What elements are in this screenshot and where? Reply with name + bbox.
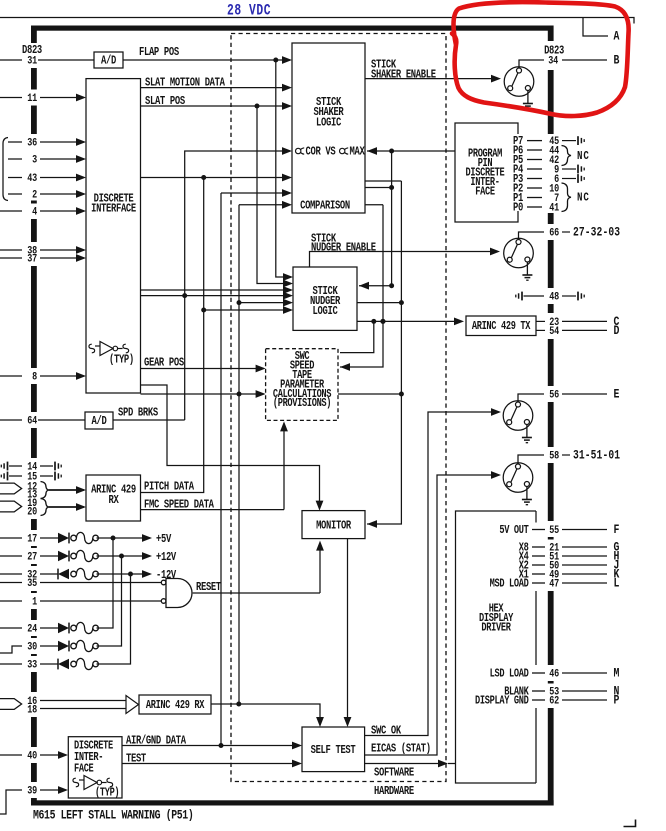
wire air/gnd data [122,745,300,747]
svg-text:P: P [613,692,619,708]
svg-text:HARDWARE: HARDWARE [374,785,414,799]
cable bracket pins 36/3/43/2 [3,138,8,201]
pin 31 [0,59,22,61]
pin 15 (not connected) [1,472,7,481]
hex display driver U14 [456,511,537,783]
ARINC 429 RX U8 [86,475,141,521]
LRU unit boundary M615 (thick border) [31,26,554,806]
junction pitch data [201,175,206,180]
junction swc feed 1 [371,319,376,324]
wire alpha COR input (spd brks) [185,151,290,420]
open bus arrowhead into ARINC 429 RX [126,696,139,714]
wire test [122,763,300,765]
pin 14 (not connected) [1,462,7,471]
svg-text:GEAR POS: GEAR POS [144,356,184,370]
pin 30 [0,646,22,653]
svg-text:SELF TEST: SELF TEST [311,744,356,758]
wire self test to display driver [365,763,446,765]
wire pin32 to CR [40,573,58,575]
svg-text:41: 41 [549,203,559,216]
wire pin35 to gate [40,582,161,584]
junction pitch to nudger [201,308,206,313]
wire -12V [97,573,151,575]
svg-text:D: D [613,323,619,339]
pin 2 [8,193,22,195]
sheet corner mark [624,820,636,827]
wire comparison input 1 [141,177,291,179]
wire monitor feed [367,181,401,524]
diode CR2 [58,551,69,561]
svg-text:3: 3 [32,155,37,168]
wire pin64 to A/D [38,419,85,421]
wire comparison out 1 [365,180,401,182]
svg-text:30: 30 [27,642,37,655]
pin 27 [0,555,22,557]
wire nudger input 3 [141,289,292,291]
wire nudger out to ARINC TX [357,320,462,322]
pin 36 [8,141,22,143]
wire gear pos [141,368,264,370]
pin 24 [0,627,22,629]
svg-text:INTERFACE: INTERFACE [91,202,136,216]
svg-text:46: 46 [549,669,559,682]
svg-text:P0: P0 [513,201,523,215]
AND gate U1 (reset logic) [161,578,192,607]
svg-text:28 VDC: 28 VDC [227,3,271,20]
stub pin 9 [562,168,576,170]
A/D converter U2 [94,52,123,68]
wire pin30 to +12V bus [97,558,122,646]
svg-text:LOGIC: LOGIC [313,305,339,319]
pin 17 [0,537,22,539]
stick nudger logic U5 [293,267,357,330]
relay K2 stick nudger [504,238,534,268]
svg-text:NC: NC [577,191,590,205]
svg-text:58: 58 [549,451,559,464]
inverter (TYP) in U12 [79,776,107,790]
junction bus swc [237,392,242,397]
svg-text:66: 66 [549,228,559,241]
ground K2 [522,262,532,280]
svg-text:(TYP): (TYP) [95,786,119,800]
merge brace 12/13 [41,482,50,499]
svg-text:56: 56 [549,390,559,403]
svg-text:MSD LOAD: MSD LOAD [490,577,529,591]
wire air/gnd data bus [220,193,222,746]
wire K4 to pin 58 [518,455,544,464]
monitor U9 [302,511,365,539]
pin 43 [8,177,22,179]
svg-text:B: B [613,52,619,68]
junction spd brks to nudger [182,293,187,298]
fuse F6 [71,658,99,669]
diode CR3 [58,569,69,579]
wire to nudger right [391,151,393,286]
wire swc input 2 [141,393,264,395]
svg-text:31-51-01: 31-51-01 [573,448,620,463]
svg-text:A/D: A/D [101,54,116,68]
wire comparison input 3 [239,204,290,206]
pin 32 [0,573,22,575]
NC brace 44/42 [562,146,572,166]
svg-text:48: 48 [549,292,559,305]
stub pin 45 [562,140,576,142]
wire FLAP POS [123,59,290,61]
ARINC 429 RX U11 [139,695,211,714]
svg-text:39: 39 [27,786,37,799]
fuse F4 [71,622,99,633]
svg-text:17: 17 [27,534,37,547]
junction slat pos [255,104,260,109]
relay K4 eicas [503,463,533,493]
relay K3 swc ok [503,401,533,431]
right border pin gaps [547,41,555,70]
svg-text:(PROVISIONS): (PROVISIONS) [273,397,331,411]
wire nudger out mid [357,302,401,304]
comparison labels alpha COR vs alpha MAX [296,148,305,154]
svg-text:64: 64 [27,416,37,429]
wire pin33 to -12V bus [97,576,131,664]
svg-text:18: 18 [27,704,37,717]
svg-text:ARINC 429 RX: ARINC 429 RX [146,699,205,713]
junction rx out [236,702,241,707]
wire comparison input 2 (air/gnd) [221,192,290,194]
svg-text:PITCH DATA: PITCH DATA [144,480,195,494]
svg-text:M: M [613,665,619,681]
fuse F3 [71,568,99,579]
ground K3 [522,425,532,443]
svg-text:RX: RX [109,494,120,508]
fuse F2 [71,550,99,561]
wire nudger input 4 [141,295,292,297]
wire slat pos [141,105,291,107]
wire comparison out 3 [365,204,383,206]
wire into hex driver [448,763,456,765]
svg-text:11: 11 [27,93,37,106]
wire stick nudger enable [310,252,499,268]
wire reset to monitor [319,543,321,593]
wire RESET [193,592,320,594]
pin 1 [0,600,22,602]
svg-text:MAX: MAX [350,145,366,159]
svg-text:24: 24 [27,624,37,637]
svg-text:COR VS: COR VS [306,145,336,159]
stub pin 34 left [540,59,544,61]
dashed software/hardware boundary box [231,34,446,782]
wire +12V [97,555,151,557]
wire pin24 to +5V bus [97,540,114,628]
svg-text:20: 20 [27,507,37,520]
svg-text:FLAP POS: FLAP POS [139,46,179,60]
discrete interface U3 [86,79,141,393]
junction nudger out [399,300,404,305]
svg-text:54: 54 [549,326,559,339]
svg-text:FACE: FACE [475,185,495,199]
svg-text:M615 LEFT STALL WARNING (P51): M615 LEFT STALL WARNING (P51) [33,807,193,823]
svg-text:EICAS (STAT): EICAS (STAT) [371,743,431,757]
discrete interface U12 [68,737,122,798]
wire eicas stat to relay K4 [365,475,499,755]
bus arrow pins 16/18 [0,699,22,710]
svg-text:DISPLAY GND: DISPLAY GND [475,694,529,708]
svg-text:NUDGER ENABLE: NUDGER ENABLE [311,241,376,255]
svg-text:34: 34 [548,56,558,69]
svg-text:LSD LOAD: LSD LOAD [490,667,529,681]
svg-text:2: 2 [32,190,37,203]
wire to pin A [583,18,608,37]
svg-text:27: 27 [27,552,37,565]
wire K1 to pin 34 [519,60,540,68]
svg-text:37: 37 [27,254,37,267]
pin 4 [0,210,22,212]
NC brace 10/7/41 [562,183,572,212]
svg-text:(TYP): (TYP) [109,353,134,367]
wire K3 to pin 56 [518,394,544,402]
inverter (TYP) in U3 [95,342,123,356]
relay K1 stick shaker [504,67,534,97]
SWC speed tape parameter calculations U6 (dashed provisions box) [266,349,338,421]
wire to swc right top [340,321,374,352]
ARINC 429 TX U15 [466,316,536,336]
svg-text:E: E [613,386,619,402]
diode CR4 [58,623,69,633]
wire pin31 to A/D [38,59,94,61]
junction flap pos [273,58,278,63]
wire ARINC input A [49,489,84,491]
pin 54 / D [536,329,545,331]
pin 64 [0,419,22,421]
svg-text:55: 55 [549,525,559,538]
stick shaker logic U4 [292,43,365,213]
wire bus to self test [238,205,240,704]
bus arrow pins 19/20 [0,501,22,512]
wire stick shaker enable [365,78,499,80]
svg-text:+12V: +12V [156,551,177,565]
junction comp out 2 [389,185,394,190]
wire slat motion data [141,87,291,89]
svg-text:33: 33 [27,660,37,673]
pin 37 [0,257,22,259]
wire spd brks [113,419,185,421]
svg-text:31: 31 [27,56,37,69]
pin 11 [0,97,22,99]
A/D converter U7 [85,412,113,429]
pin 35 [0,582,22,584]
svg-text:MONITOR: MONITOR [316,519,352,533]
ground K4 [522,487,532,505]
svg-text:FACE: FACE [74,762,94,776]
junction nudger enable in [389,283,394,288]
wire alpha MAX program [367,150,455,152]
junction air/gnd [219,743,224,748]
svg-text:A/D: A/D [92,415,107,429]
svg-text:5V OUT: 5V OUT [499,524,528,538]
wire into nudger right [359,285,392,287]
svg-text:F: F [613,522,619,538]
wires ARINC 429 bus pair [40,701,126,709]
svg-text:SOFTWARE: SOFTWARE [374,766,414,780]
wire comparison out 2 [365,187,392,189]
wire fmc to swc bottom [283,423,285,509]
pin 8 [0,375,22,377]
pin 38 [0,249,22,251]
wire swc out [338,393,401,395]
pin 39 [0,790,22,814]
wire monitor top feed [141,385,320,508]
svg-text:47: 47 [549,579,559,592]
svg-text:COMPARISON: COMPARISON [300,199,350,213]
svg-text:27-32-03: 27-32-03 [573,225,620,240]
wire pin1 to gate [40,600,161,602]
wire pitch data bus [141,178,204,493]
junction bus nudger [237,300,242,305]
diode CR1 [58,533,69,543]
junction swc out [399,392,404,397]
stub pin 6 [562,178,576,180]
junction alpha max [389,149,394,154]
wire comp out to swc right [340,205,383,367]
fuse F1 [71,532,99,543]
wire ARINC input B [49,506,84,508]
diode CR6 [58,659,69,669]
left border pin gaps [30,43,38,68]
svg-text:36: 36 [27,138,37,151]
wire swc ok to relay K3 [365,412,499,736]
red hand-drawn annotation circle [452,2,629,116]
junction +12V bus [119,554,124,559]
svg-text:LOGIC: LOGIC [316,116,342,130]
fuse F5 [71,640,99,651]
wire +5V [97,537,151,539]
merge brace 19/20 [41,499,50,516]
svg-text:RESET: RESET [196,581,221,595]
pin 40 [0,754,22,756]
svg-text:SPD BRKS: SPD BRKS [118,407,158,421]
svg-text:35: 35 [27,578,37,591]
wire pin17 to CR [40,537,58,539]
junction arinc tx feed [381,319,386,324]
svg-text:43: 43 [27,173,37,186]
junction swc feed 2 [380,319,385,324]
wire pin27 to CR [40,555,58,557]
svg-text:8: 8 [32,372,37,385]
svg-text:40: 40 [27,751,37,764]
wire nudger input 5 [239,302,291,304]
wire 28 VDC bus [0,18,634,24]
svg-text:62: 62 [549,696,559,709]
pin 48 (not connected) [516,292,522,301]
pin 23 / C [536,320,545,322]
junction -12V bus [128,572,133,577]
wire K2 to pin 66 [519,232,545,240]
svg-text:1: 1 [32,597,37,610]
pin 33 [0,663,22,665]
svg-text:NC: NC [577,150,590,164]
wire arinc rx to self test [211,704,320,718]
svg-text:+5V: +5V [156,533,172,547]
bus arrow pins 12/13 [0,483,22,494]
wire flap to nudger [276,60,291,277]
junction +5V bus [111,536,116,541]
wire monitor to self test [347,539,349,718]
wire slat pos to nudger [257,106,291,284]
wire fmc speed data [141,509,285,511]
diode CR5 [58,641,69,651]
wire nudger input 6 [204,309,291,311]
self test U10 [302,727,365,772]
svg-text:4: 4 [32,207,37,220]
svg-text:L: L [613,575,619,591]
ground K1 [523,91,533,109]
svg-text:SHAKER ENABLE: SHAKER ENABLE [371,68,436,82]
program pin discrete interface U13 [455,123,518,222]
svg-text:ARINC 429 TX: ARINC 429 TX [472,320,531,334]
pin 3 [8,158,22,160]
svg-text:DRIVER: DRIVER [481,621,511,635]
